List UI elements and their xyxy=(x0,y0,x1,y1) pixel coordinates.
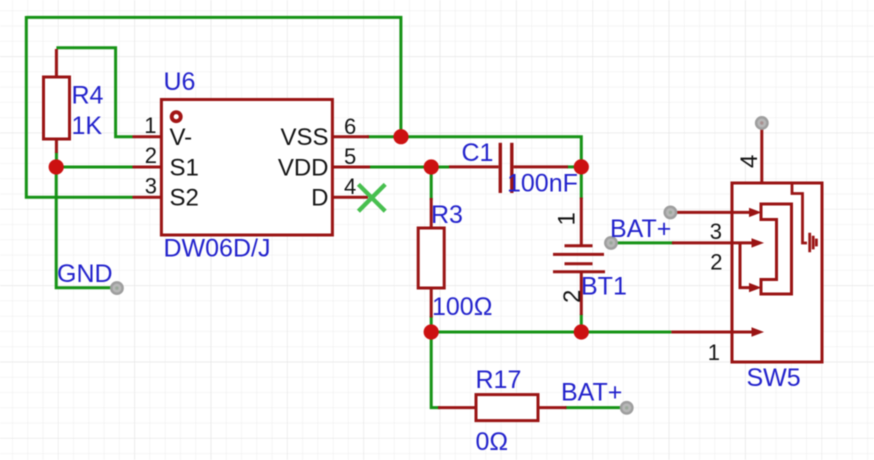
svg-text:1: 1 xyxy=(144,113,156,138)
wire left vertical rail down to S2 row xyxy=(26,16,132,197)
SW5 arrow pin 1 xyxy=(752,327,765,336)
junction at C1 right node xyxy=(574,159,589,174)
SW5 branch to lower throw xyxy=(740,243,750,288)
wire bottom rail from R3 junction to SW5 xyxy=(431,331,671,334)
resistor R4 xyxy=(44,49,70,153)
resistor R3 xyxy=(418,198,444,318)
pin 1 stub xyxy=(133,135,162,138)
R17 BAT+ terminal xyxy=(621,402,632,413)
svg-text:SW5: SW5 xyxy=(747,364,801,392)
svg-text:BAT+: BAT+ xyxy=(610,215,671,243)
wire R17 right green to BAT+ terminal xyxy=(565,406,628,409)
GND terminal xyxy=(111,282,122,293)
svg-text:R17: R17 xyxy=(476,366,522,394)
wire junction down to R17 row xyxy=(431,332,440,408)
svg-text:D: D xyxy=(311,185,328,212)
svg-text:1: 1 xyxy=(708,340,720,365)
SW5 arrow lower throw xyxy=(749,283,762,292)
SW5 pin4 terminal xyxy=(756,117,767,128)
svg-text:0Ω: 0Ω xyxy=(476,428,509,456)
wire R3 bottom to junction xyxy=(430,316,433,332)
svg-text:VSS: VSS xyxy=(280,124,328,151)
wire BAT+ mid to SW5 pin3 green part xyxy=(610,241,675,244)
SW5 arrow middle xyxy=(752,238,765,247)
switch SW5 body xyxy=(732,183,822,362)
junction at VDD node xyxy=(424,159,439,174)
svg-text:S1: S1 xyxy=(170,154,199,181)
junction at R3 bottom node xyxy=(424,324,439,339)
SW5 internal bracket contact xyxy=(761,204,792,294)
IC U6 body xyxy=(161,100,332,236)
svg-text:DW06D/J: DW06D/J xyxy=(164,235,271,263)
svg-text:S2: S2 xyxy=(170,185,199,212)
svg-text:V-: V- xyxy=(170,124,193,151)
svg-text:R3: R3 xyxy=(431,201,463,229)
SW5 pin 4 wire xyxy=(760,122,763,183)
svg-text:4: 4 xyxy=(736,155,763,168)
svg-text:4: 4 xyxy=(344,174,356,199)
svg-text:3: 3 xyxy=(145,173,157,198)
wire pin6 VSS to junction and across to battery column xyxy=(367,137,581,167)
svg-text:5: 5 xyxy=(344,144,356,169)
wire GND branch xyxy=(56,167,117,288)
svg-text:VDD: VDD xyxy=(278,154,329,181)
junction at VSS node xyxy=(393,129,408,144)
wire battery column down segment xyxy=(580,165,583,199)
wire R4 top to pin1 V- xyxy=(56,48,132,137)
pin 5 stub xyxy=(332,166,370,169)
wire bottom rail red segment into SW5 xyxy=(671,331,752,334)
BAT+ mid terminal xyxy=(605,237,616,248)
capacitor C1 xyxy=(449,143,568,193)
svg-text:GND: GND xyxy=(57,260,113,288)
wire battery bottom green segment xyxy=(580,314,583,332)
svg-text:2: 2 xyxy=(145,143,157,168)
svg-text:100Ω: 100Ω xyxy=(432,293,492,321)
svg-text:R4: R4 xyxy=(72,82,104,110)
wire C1 right to battery column xyxy=(567,165,581,168)
wire top bypass from left column to VSS node column xyxy=(26,17,401,130)
SW5 internal ground symbol xyxy=(792,184,807,243)
pin 3 stub xyxy=(133,196,162,199)
wire pin5 VDD to junction to C1 xyxy=(368,166,449,169)
BAT+ top terminal xyxy=(665,207,676,218)
junction at R4/S1 node xyxy=(49,159,64,174)
pin 2 stub xyxy=(133,166,162,169)
wire R4 bottom green segment xyxy=(55,152,58,167)
pin 6 stub xyxy=(332,135,369,138)
svg-text:U6: U6 xyxy=(164,68,196,96)
resistor R17 xyxy=(438,395,567,421)
svg-text:3: 3 xyxy=(710,219,722,244)
wire pin3 red segment xyxy=(672,241,752,244)
svg-text:100nF: 100nF xyxy=(507,170,578,198)
svg-text:C1: C1 xyxy=(462,139,494,167)
wire BAT+ top terminal into SW5 xyxy=(670,211,751,214)
SW5 arrow top throw xyxy=(749,208,762,217)
svg-text:2: 2 xyxy=(710,250,722,275)
wire junction down to R3 top xyxy=(430,167,433,200)
battery BT1 xyxy=(553,198,605,316)
svg-text:BT1: BT1 xyxy=(581,273,627,301)
wire node junction to pin2 S1 xyxy=(56,166,132,169)
svg-text:1: 1 xyxy=(554,212,581,225)
svg-text:6: 6 xyxy=(344,114,356,139)
svg-text:BAT+: BAT+ xyxy=(561,379,622,407)
svg-text:1K: 1K xyxy=(72,112,103,140)
pin 4 stub xyxy=(332,196,368,199)
no-connect X on pin 4 xyxy=(358,184,385,211)
junction at battery bottom node xyxy=(574,324,589,339)
